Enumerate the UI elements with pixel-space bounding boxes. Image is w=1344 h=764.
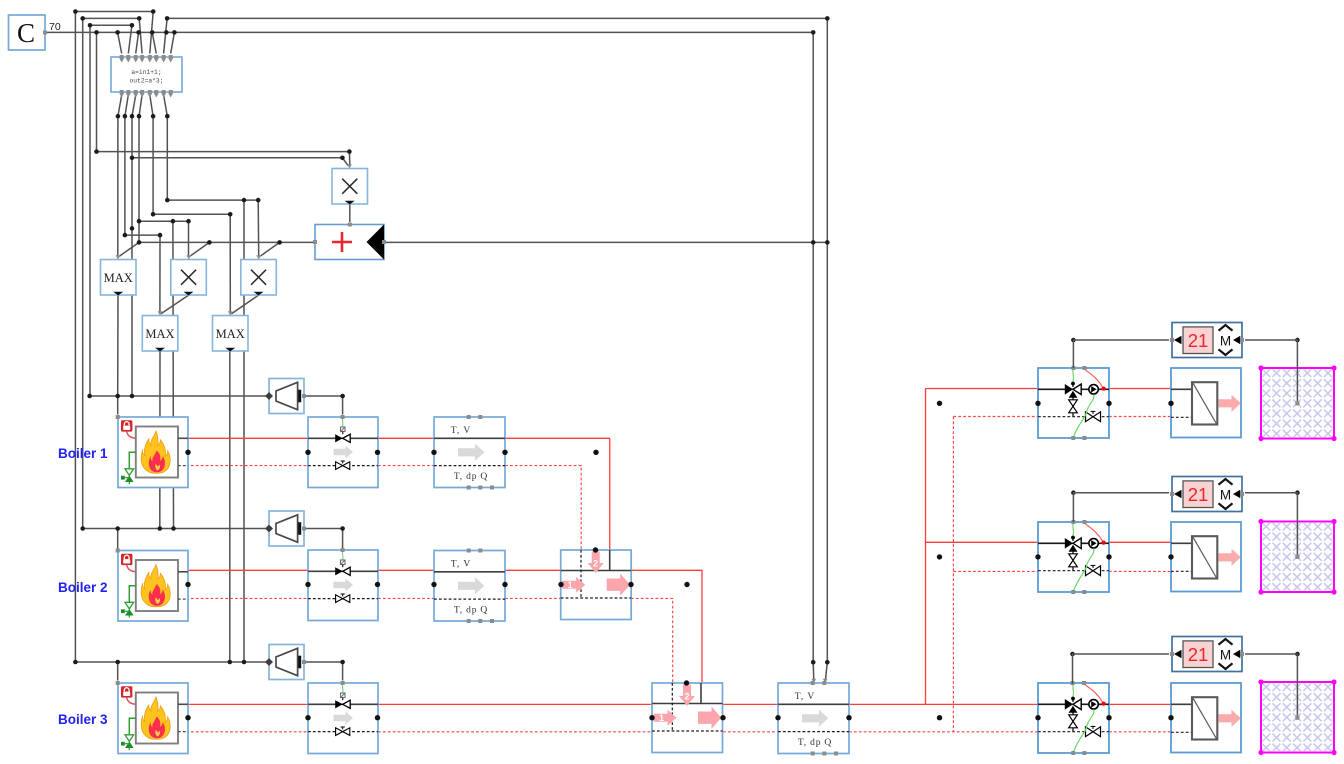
- circuit C3 top pins: [1071, 681, 1075, 685]
- wire left column L2 x82.7: [82, 18, 84, 528]
- port dots consumer2: [937, 554, 942, 559]
- node boiler2 row dots: [80, 526, 85, 531]
- script block pins: [119, 55, 173, 98]
- port dots boiler row3: [185, 715, 190, 720]
- room Z2 sensor pin: [1295, 555, 1299, 559]
- wire left column L3 x90: [89, 25, 91, 396]
- circuit C2 top pins: [1071, 520, 1075, 524]
- node row4 dots: [94, 30, 99, 35]
- circuit block C2: [1038, 522, 1109, 594]
- wire rowC y200.1: [167, 199, 258, 201]
- wire setpoint1 left: [1073, 340, 1169, 368]
- wire boiler2 row y528.5: [83, 528, 267, 530]
- node row1 dots: [73, 9, 78, 14]
- node boiler1 row dots: [87, 394, 92, 399]
- port dots boiler row2: [185, 582, 190, 587]
- node row2 dots: [80, 16, 85, 21]
- wire MAX3 output to boiler3 row: [229, 351, 231, 663]
- radiator R3: [1171, 683, 1241, 753]
- wire col x188.5 to mult2 pin: [188, 221, 190, 255]
- valve V1 control pin: [341, 415, 345, 419]
- MAX M2 input arrow: [158, 311, 163, 315]
- wire slant to mult3 pin: [257, 200, 260, 255]
- TV sensor S3: [778, 681, 849, 756]
- room Z3 sensor pin: [1295, 716, 1299, 720]
- circuit block C3: [1038, 683, 1109, 755]
- valve block V2: [308, 550, 378, 621]
- wire rowD y214.3: [153, 213, 230, 215]
- wire rowA y151.6 to mult1: [97, 152, 350, 166]
- wire slant rowG to mult2 pin: [190, 242, 209, 256]
- room Z1 sensor pin: [1295, 401, 1299, 405]
- wire gain2 output to valve2: [304, 529, 343, 549]
- pipe supply boiler3 red: [186, 703, 1171, 705]
- TV sensor S3 top pin arrows: [811, 679, 816, 683]
- wire setpoint2 left: [1073, 493, 1169, 522]
- mixer J1: [561, 550, 632, 620]
- multiply block P1 top: [332, 169, 368, 205]
- node col O3 dot: [130, 226, 135, 231]
- TV sensor S1: [434, 415, 505, 490]
- wire slant rowG to MAX1 pin: [119, 242, 139, 256]
- pipe return boiler2 dashed: [186, 598, 673, 683]
- pipe main return riser dashed: [952, 417, 954, 732]
- svg-text:Boiler 2: Boiler 2: [58, 580, 108, 595]
- wire rowF y235.1: [125, 234, 160, 236]
- MAX block M1: [101, 260, 137, 296]
- MAX M1 input arrow: [116, 255, 121, 259]
- wire boiler2 control stub: [117, 529, 119, 549]
- pipe consumer1 supply: [926, 388, 1172, 390]
- boiler B2: [118, 551, 188, 622]
- multiply P1 input arrow: [347, 164, 352, 168]
- wire row4 C output y32.4: [45, 31, 813, 33]
- wire rowG add input y242.4: [139, 241, 315, 243]
- MAX block M2: [142, 316, 178, 352]
- port dots boiler row1: [185, 450, 190, 455]
- wire setpoint3 left: [1073, 654, 1170, 684]
- wire mult3 output slant to MAX3: [232, 295, 259, 314]
- node add output dots: [811, 240, 816, 245]
- multiply P2 input arrow: [186, 255, 191, 259]
- setpoint SP3: [1170, 637, 1244, 672]
- circuit block C1: [1038, 368, 1109, 440]
- pipe supply line inside TV1: [434, 437, 505, 439]
- MAX block M3: [213, 316, 249, 352]
- circuit C1 top pins: [1071, 366, 1075, 370]
- wire mult1 output to add: [349, 204, 351, 222]
- script block U1: [111, 57, 182, 92]
- wire out column O2 x124.9: [124, 116, 126, 235]
- port dots consumer3: [1035, 715, 1040, 720]
- wire out column O5 x153.1: [152, 116, 154, 214]
- wire out column O3 x132 to boiler1 row: [131, 116, 133, 396]
- radiator R1: [1171, 368, 1241, 438]
- room Z1: [1258, 365, 1336, 441]
- boiler B3 control pin: [116, 681, 120, 685]
- svg-text:Boiler 1: Boiler 1: [58, 446, 108, 461]
- node boiler3 row dots: [73, 660, 78, 665]
- boiler B1 control pin: [116, 415, 120, 419]
- node script output dots: [116, 114, 121, 119]
- mixer J2: [652, 683, 723, 753]
- wire boiler3 row y662: [75, 661, 266, 663]
- wire out column O4 x139: [138, 116, 140, 242]
- valve V3 control pin: [341, 681, 345, 685]
- port dots mixer1: [558, 582, 563, 587]
- node rowC dots: [165, 198, 170, 203]
- wire MAX2 output to boiler2 row: [159, 351, 161, 529]
- wire col x160 to MAX2: [159, 235, 161, 313]
- pipe main supply riser: [925, 389, 927, 705]
- wire left column L1 x75.4: [74, 12, 76, 663]
- pipe return boiler3 dashed: [186, 731, 1171, 733]
- room Z3: [1258, 679, 1336, 755]
- constant C1 value 70: [9, 15, 48, 50]
- gain block G1: [265, 379, 306, 414]
- wire row1 y11.5: [75, 11, 153, 13]
- svg-text:70: 70: [49, 21, 61, 33]
- node rowA dots: [94, 149, 99, 154]
- multiply block P3: [241, 260, 276, 296]
- multiply block P2: [171, 260, 207, 296]
- radiator R2: [1171, 522, 1241, 592]
- pipe return boiler1 dashed: [186, 466, 581, 551]
- valve V2 control pin: [341, 548, 345, 552]
- port dots mixer2 TV3: [649, 715, 654, 720]
- node TV3 col dots: [811, 660, 816, 665]
- node rowE dots: [137, 219, 142, 224]
- wire setpoint3 right to room3: [1245, 654, 1297, 716]
- gain block G3: [265, 645, 306, 680]
- wire col x827.3 to TV3 pin2: [825, 18, 827, 680]
- boiler B3: [118, 683, 188, 754]
- wire setpoint1 right to room1: [1245, 340, 1297, 401]
- setpoint SP2: [1170, 477, 1244, 512]
- setpoint signal wires overlay: [1073, 340, 1298, 716]
- setpoint SP1: [1170, 323, 1244, 358]
- node rowD dots: [151, 212, 156, 217]
- TV sensor S2: [434, 549, 505, 624]
- wire out column O1 x117.9 to MAX1: [117, 116, 119, 256]
- wire row2 y18.4 right to col827: [167, 17, 827, 19]
- pipe consumer2 return dashed: [953, 570, 1171, 572]
- port dots consumer1: [937, 401, 942, 406]
- wire left column L4 x96.5: [96, 32, 98, 151]
- node rowB dots: [130, 156, 135, 161]
- wire setpoint2 right to room2: [1245, 493, 1297, 555]
- wire script output feeders: [118, 95, 167, 116]
- wire col x813.2 to TV3 pin1: [812, 32, 815, 680]
- pipe supply boiler1 red: [186, 438, 610, 551]
- wire script input feeders: [118, 12, 175, 54]
- node row3 dots: [88, 23, 93, 28]
- pipe supply boiler2 red: [186, 570, 702, 684]
- room sensor pins overlay: [1295, 401, 1299, 719]
- wire boiler1 row y396: [90, 395, 267, 397]
- add block A1: [313, 223, 386, 260]
- wire MAX1 output to boiler1 row: [117, 295, 119, 396]
- multiply P3 input arrow: [256, 255, 261, 259]
- wire gain3 output to valve3: [304, 662, 343, 681]
- wire slant rowG to mult3 pin: [260, 242, 279, 256]
- wire col x230 to MAX3: [229, 214, 231, 313]
- valve block V3: [308, 683, 378, 754]
- svg-text:Boiler 3: Boiler 3: [58, 712, 108, 727]
- pipe consumer2 supply: [926, 541, 1172, 543]
- wire gain1 output to valve1: [304, 396, 343, 415]
- wire row2 y18.4 left: [83, 17, 140, 19]
- MAX M3 input arrow: [228, 311, 233, 315]
- node setpoint corner dots: [1071, 338, 1076, 343]
- wire boiler3 control stub: [117, 662, 119, 681]
- room Z2: [1258, 519, 1336, 595]
- wire row3 y25.3: [90, 24, 132, 26]
- boiler B2 control pin: [116, 549, 120, 553]
- valve block V1: [308, 417, 378, 488]
- pipe consumer1 return dashed: [953, 416, 1171, 418]
- wire add output y242.4: [384, 241, 827, 243]
- wire mult2 output slant to MAX2: [161, 295, 189, 314]
- wire rowE y221.2: [139, 220, 189, 222]
- wire boiler1 control stub: [117, 396, 119, 415]
- wire col x172.9 to boiler2 row: [172, 221, 175, 528]
- gain block G2: [265, 511, 306, 546]
- node rowG dots: [137, 240, 142, 245]
- wire col x244 rowC to boiler3: [243, 200, 245, 662]
- wire out column O6 x167.3: [166, 116, 168, 200]
- node rowF dots: [123, 233, 128, 238]
- pipe return line inside TV1: [434, 465, 505, 467]
- boiler B1: [118, 417, 188, 488]
- wire rowB y157.8 to mult1: [132, 158, 348, 166]
